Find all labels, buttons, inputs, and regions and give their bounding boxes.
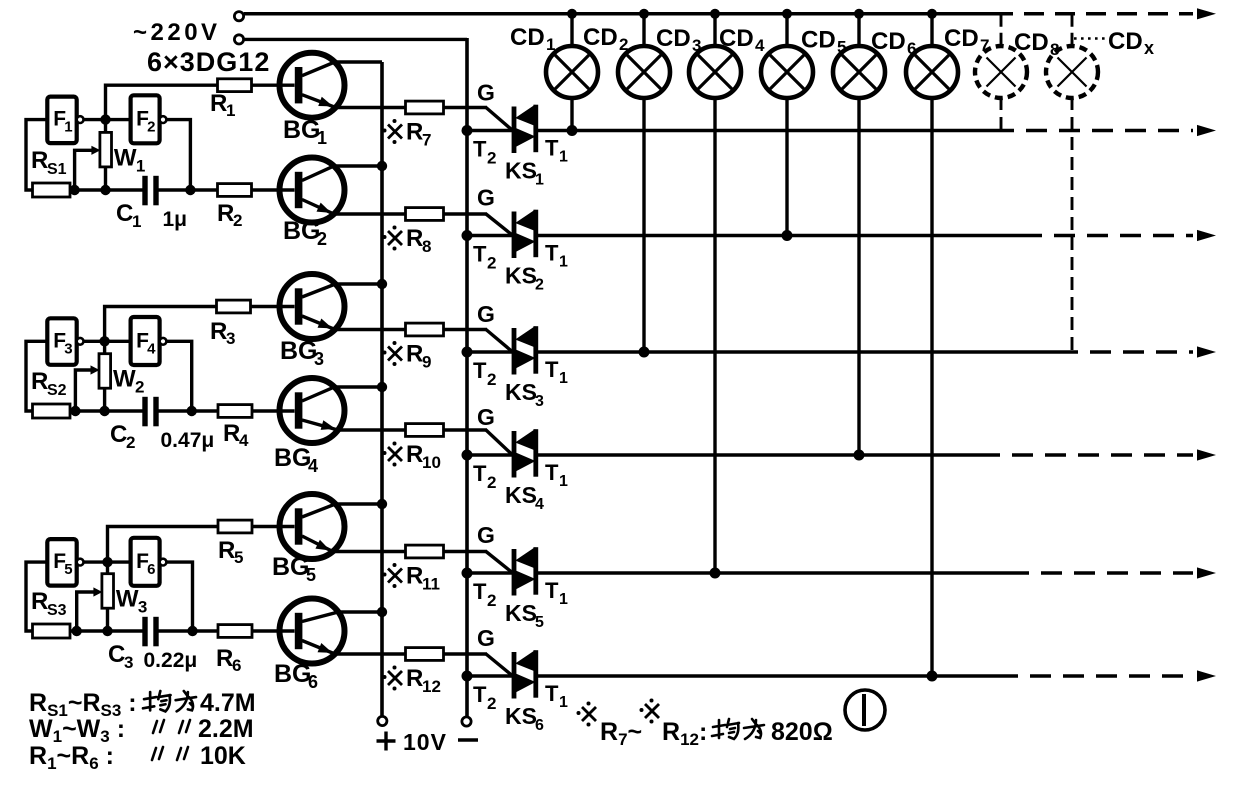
lamp CD3 — [689, 9, 741, 579]
wire T2 feed row 3 — [467, 350, 513, 354]
lamp CD6 — [906, 9, 958, 682]
wire R11 to KS5 gate — [444, 550, 488, 553]
wire top supply rail — [244, 12, 993, 16]
terminal minus — [462, 717, 471, 726]
wire R12 to KS6 gate — [444, 652, 488, 655]
wire F2 right to capacitor node — [166, 120, 190, 190]
wire row 4 arrow — [1197, 449, 1216, 460]
lamp CD5 — [833, 9, 885, 461]
wire R9 to KS3 gate — [444, 328, 488, 331]
label *R10 — [388, 447, 402, 461]
junction dots block 1 bottom — [69, 185, 79, 195]
wire +10V bus (vertical) — [380, 62, 384, 716]
node T2 bus row 3 — [462, 347, 473, 358]
svg-text:BG6: BG6 — [274, 660, 318, 692]
wire R5 to BG5 base — [252, 525, 295, 528]
resistor R9 — [406, 323, 444, 336]
thyristor KS2 (triac) — [512, 210, 539, 259]
resistor R12 — [406, 648, 444, 661]
node T2 bus row 5 — [462, 568, 473, 579]
wire row 6 arrow — [1197, 670, 1216, 681]
wire dotted link CD8..CDx — [1074, 37, 1109, 40]
wire W1 wiper — [75, 150, 93, 190]
wire row 1 arrow — [1197, 125, 1216, 136]
svg-text:BG1: BG1 — [283, 116, 327, 148]
label minus — [458, 738, 478, 742]
wire R7 to KS1 gate — [444, 106, 488, 109]
photoresistor F2 — [131, 95, 160, 143]
wire R8 to KS2 gate — [444, 212, 488, 215]
node T2 bus row 6 — [462, 671, 473, 682]
label *R8 — [388, 231, 402, 245]
potentiometer W1 — [100, 132, 112, 167]
junction node block 3 mid — [102, 557, 112, 567]
resistor R7 — [406, 101, 444, 114]
junction dots block 3 bottom — [72, 626, 82, 636]
terminal plus — [378, 716, 387, 725]
thyristor KS5 (triac) — [512, 547, 539, 596]
node BG2 collector junction — [377, 161, 387, 171]
transistor BG6 — [280, 599, 407, 664]
lamp CD7 — [975, 14, 1027, 131]
label *R7 — [388, 125, 402, 139]
thyristor KS3 (triac) — [512, 326, 539, 375]
resistor RS1 — [33, 183, 71, 197]
wire block 2 bottom line — [70, 409, 144, 412]
svg-text:~220V: ~220V — [133, 19, 221, 46]
svg-text:BG2: BG2 — [283, 217, 327, 249]
svg-text:BG4: BG4 — [274, 444, 318, 476]
junction dots block 2 bottom — [70, 406, 80, 416]
resistor R10 — [406, 424, 444, 437]
label plus sign — [377, 739, 396, 742]
label *R12 — [388, 671, 402, 685]
wire junction to R1 (top feed) — [106, 85, 218, 119]
wire row 3 (KS3 T1 line) — [536, 350, 1057, 354]
wire T2 feed row 4 — [467, 453, 513, 457]
wire W3 wiper — [77, 592, 95, 631]
resistor R8 — [406, 208, 444, 221]
capacitor C3 — [142, 617, 147, 647]
lamp CD1 — [546, 9, 598, 136]
potentiometer W2 — [99, 354, 111, 389]
wire left rail block 2 — [26, 341, 47, 411]
svg-text:G: G — [477, 522, 495, 548]
svg-text:G: G — [477, 625, 495, 651]
wire R4 to BG4 base — [252, 409, 295, 412]
wire R10 to KS4 gate — [444, 428, 488, 431]
wire W3 bottom — [106, 608, 109, 631]
wire F4 right to capacitor node — [166, 341, 192, 411]
wire W3 top — [106, 562, 109, 574]
resistor R2 — [218, 184, 252, 197]
wire left rail block 1 — [26, 120, 47, 190]
thyristor KS4 (triac) — [512, 429, 539, 478]
wire row 2 (KS2 T1 line) — [536, 234, 1021, 238]
wire W2 top — [103, 341, 106, 353]
node BG5 collector junction — [377, 499, 387, 509]
node BG6 collector junction — [377, 607, 387, 617]
transistor BG2 — [280, 158, 407, 223]
wire W2 bottom — [103, 388, 106, 411]
svg-text:G: G — [477, 301, 495, 327]
resistor RS3 — [33, 624, 71, 638]
thyristor KS6 (triac) — [512, 650, 539, 699]
terminal AC line N — [234, 35, 243, 44]
svg-text:820Ω: 820Ω — [771, 718, 833, 746]
node T2 bus row 1 — [462, 125, 473, 136]
transistor BG4 — [280, 378, 407, 443]
wire block 1 bottom line — [70, 188, 144, 191]
resistor R11 — [406, 545, 444, 558]
wire junction to R3 (top feed) — [105, 307, 218, 342]
thyristor KS1 (triac) — [512, 105, 539, 154]
svg-text:R1~R6 :: R1~R6 : — [29, 742, 114, 773]
resistor RS2 — [33, 404, 71, 418]
wire F3-F4 link (mid) — [83, 340, 131, 343]
transistor BG3 — [280, 274, 407, 339]
node T2 bus row 2 — [462, 230, 473, 241]
photoresistor F4 — [131, 317, 160, 365]
svg-text:0.22μ: 0.22μ — [144, 649, 198, 672]
lamp CD8 — [1046, 14, 1098, 352]
wire R1 to BG1 base — [252, 83, 295, 86]
wire R6 to BG6 base — [252, 629, 295, 632]
capacitor C2 — [142, 397, 147, 427]
wire row 6 (KS6 T1 line) — [536, 674, 997, 678]
resistor R5 — [218, 520, 252, 533]
wire F1-F2 link (mid) — [83, 118, 131, 121]
wire F5-F6 link (mid) — [83, 560, 131, 563]
resistor R1 — [218, 79, 252, 92]
capacitor C1 — [142, 176, 147, 206]
wire F6 right to capacitor node — [166, 562, 192, 631]
svg-text:BG3: BG3 — [280, 337, 324, 369]
wire rail arrow — [1197, 8, 1216, 19]
svg-text:10V: 10V — [403, 729, 447, 755]
transistor BG1 — [280, 53, 407, 118]
wire left rail block 3 — [26, 562, 47, 631]
lamp CD4 — [761, 9, 813, 241]
terminal AC line L — [234, 12, 243, 21]
junction node block 1 mid — [100, 114, 110, 124]
wire R3 to BG3 base — [251, 305, 295, 308]
wire W2 wiper — [75, 370, 92, 411]
wire T2 feed row 2 — [467, 234, 513, 238]
wire T2 feed row 6 — [467, 674, 513, 678]
wire junction to R5 (top feed) — [108, 527, 218, 563]
photoresistor F1 — [47, 97, 76, 144]
potentiometer W3 — [102, 574, 114, 609]
wire row 3 arrow — [1197, 346, 1216, 357]
svg-text:0.47μ: 0.47μ — [161, 429, 215, 452]
svg-text:G: G — [477, 185, 495, 211]
photoresistor F3 — [47, 318, 76, 365]
wire row 4 (KS4 T1 line) — [536, 453, 979, 457]
svg-text:4.7M: 4.7M — [200, 689, 256, 717]
wire R2 to BG2 base — [252, 188, 295, 191]
wire W1 bottom — [104, 167, 107, 190]
svg-text:10K: 10K — [200, 742, 246, 770]
lamp CD2 — [618, 9, 670, 358]
photoresistor F6 — [131, 538, 160, 586]
svg-text:6×3DG12: 6×3DG12 — [147, 47, 270, 77]
photoresistor F5 — [47, 539, 76, 586]
wire row 1 (KS1 T1 line) — [536, 129, 993, 133]
wire row 2 arrow — [1197, 230, 1216, 241]
svg-text:2.2M: 2.2M — [198, 715, 254, 743]
junction node block 2 mid — [99, 336, 109, 346]
wire W1 top — [104, 120, 107, 133]
figure number 1 (circled) — [845, 690, 885, 730]
wire row 5 (KS5 T1 line) — [536, 571, 1008, 575]
node BG3 collector junction — [377, 279, 387, 289]
label *R11 — [388, 569, 402, 583]
wire row 5 arrow — [1197, 567, 1216, 578]
wire T2 feed row 5 — [467, 571, 513, 575]
svg-text:1μ: 1μ — [163, 208, 188, 231]
wire AC N to T2 bus — [244, 38, 467, 41]
transistor BG5 — [280, 494, 407, 559]
node BG4 collector junction — [377, 382, 387, 392]
note R7~R12 values — [582, 707, 596, 721]
node T2 bus row 4 — [462, 450, 473, 461]
resistor R3 — [217, 300, 251, 313]
wire T2 feed row 1 — [467, 129, 513, 133]
svg-text:G: G — [477, 404, 495, 430]
svg-text:G: G — [477, 80, 495, 106]
wire T2 bus (vertical) — [465, 38, 469, 717]
label *R9 — [388, 347, 402, 361]
svg-text:BG5: BG5 — [272, 553, 316, 585]
wire block 3 bottom line — [70, 629, 144, 632]
resistor R6 — [218, 625, 252, 638]
resistor R4 — [218, 405, 252, 418]
